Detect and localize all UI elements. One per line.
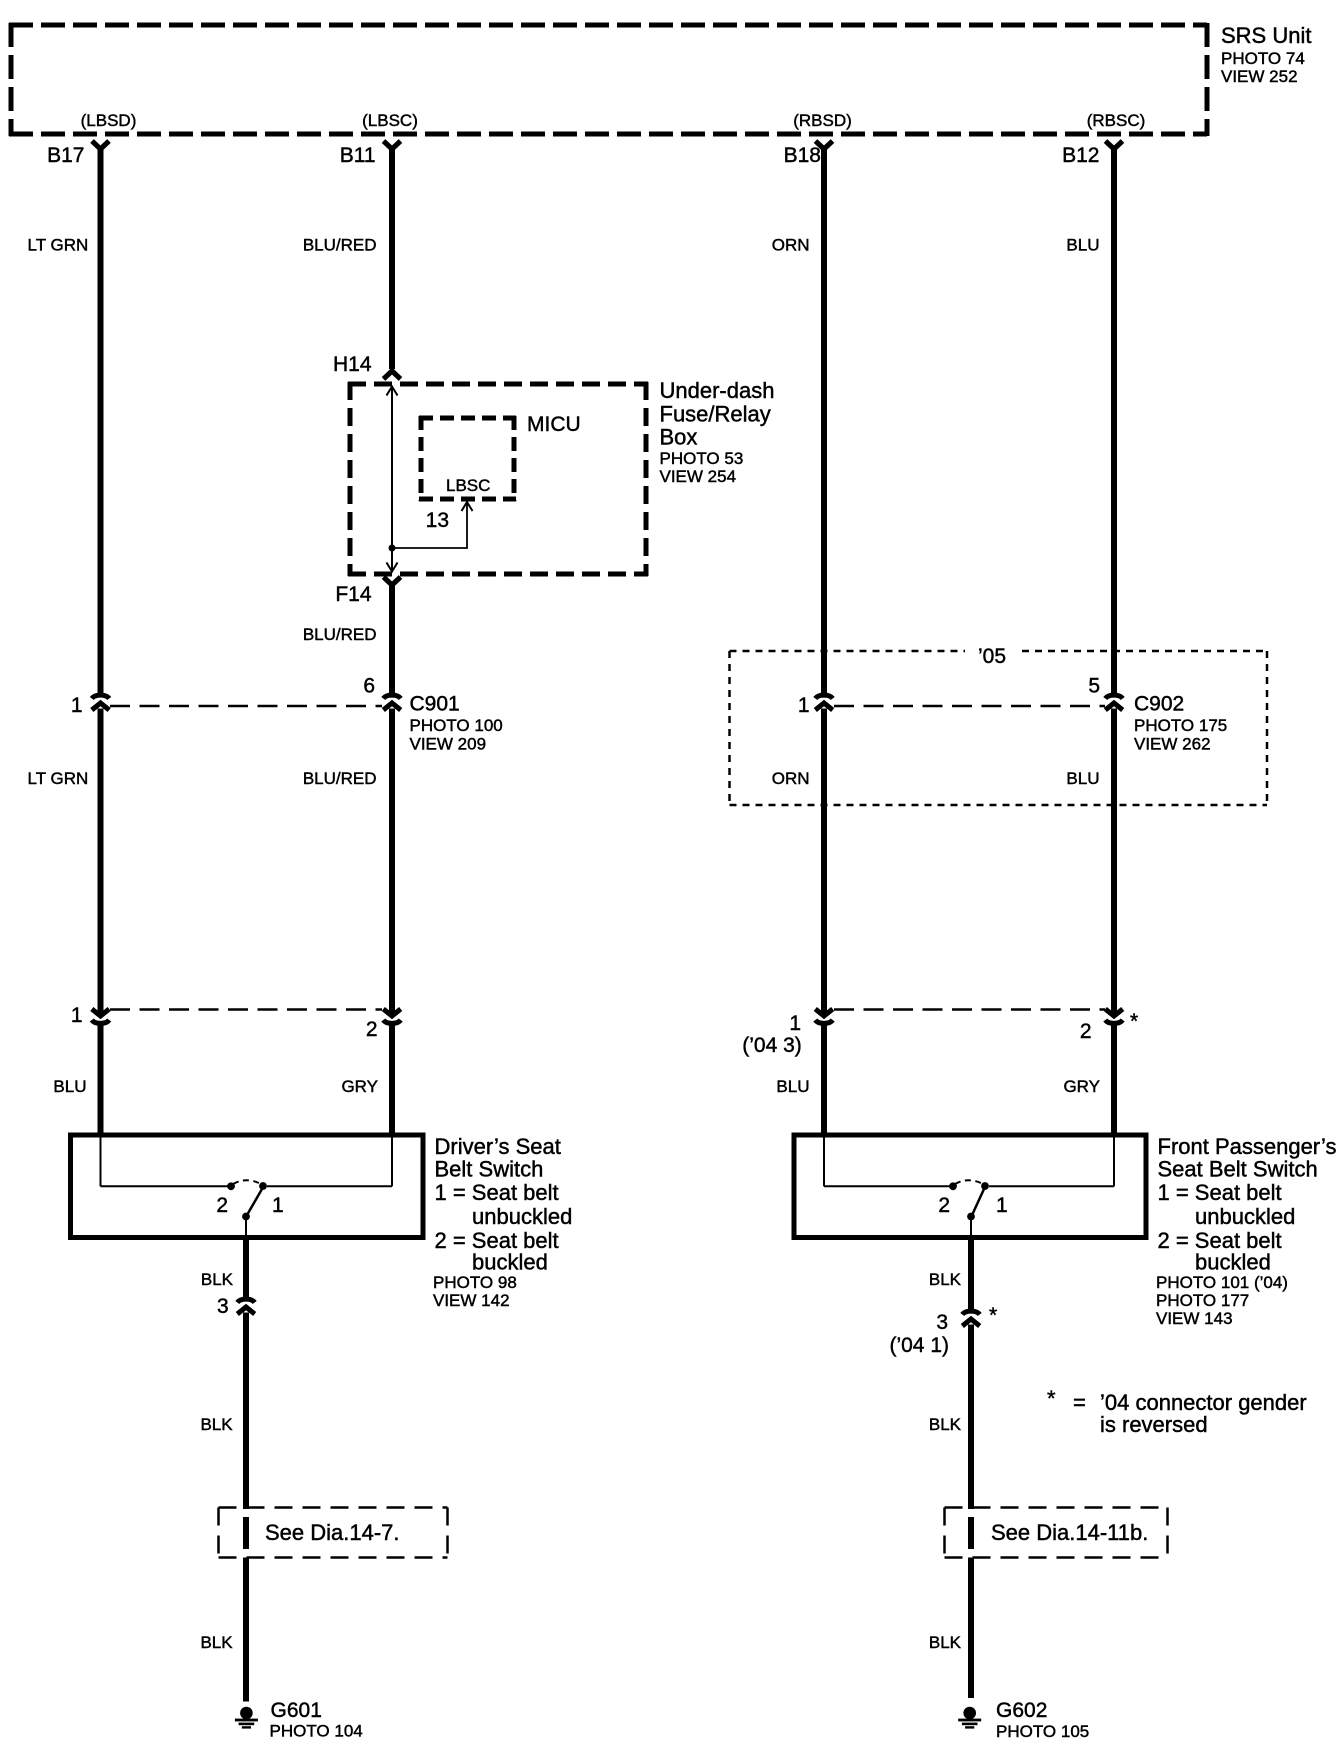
dashed link C901 — [110, 705, 382, 708]
contact dots right — [949, 1182, 957, 1190]
Front Passenger's Seat Belt Switch box — [794, 1135, 1146, 1238]
svg-text:3: 3 — [217, 1295, 229, 1318]
svg-text:1: 1 — [996, 1194, 1008, 1217]
connector cup B18 — [816, 141, 833, 149]
svg-text:BLU: BLU — [776, 1077, 809, 1096]
C901 label — [410, 693, 503, 754]
connector cup B11 — [384, 141, 401, 149]
svg-text:PHOTO 53: PHOTO 53 — [660, 449, 744, 468]
svg-text:VIEW 142: VIEW 142 — [433, 1291, 510, 1310]
svg-text:2: 2 — [216, 1194, 228, 1217]
connector 3 right — [962, 1311, 979, 1326]
svg-text:BLU: BLU — [53, 1077, 86, 1096]
svg-text:(RBSD): (RBSD) — [793, 111, 852, 130]
svg-text:BLK: BLK — [200, 1633, 233, 1652]
svg-text:5: 5 — [1088, 675, 1100, 698]
svg-text:H14: H14 — [333, 353, 372, 376]
asterisk note — [1047, 1386, 1307, 1437]
svg-text:BLK: BLK — [929, 1633, 962, 1652]
svg-text:GRY: GRY — [341, 1077, 378, 1096]
wire5 See box to ground — [243, 1558, 249, 1702]
svg-text:B18: B18 — [784, 144, 821, 167]
svg-text:Front Passenger’s: Front Passenger’s — [1158, 1134, 1337, 1159]
wire B12 (BLU) SRS to C902 — [1111, 148, 1117, 697]
connector symbol wire4 — [1105, 1009, 1122, 1023]
svg-text:VIEW 143: VIEW 143 — [1156, 1309, 1233, 1328]
arrow up into MICU — [462, 502, 473, 511]
svg-text:C901: C901 — [410, 693, 460, 716]
svg-text:3: 3 — [936, 1311, 948, 1334]
See Dia.14-11b. box — [945, 1508, 1168, 1558]
arrow down at F14 inside — [387, 563, 398, 572]
Driver's Seat Belt Switch box — [71, 1135, 424, 1238]
'05 dotted box — [730, 651, 1268, 805]
dashed link C902 — [834, 705, 1105, 708]
connector symbol wire1 — [92, 1009, 109, 1023]
G601 label — [270, 1699, 363, 1741]
svg-text:BLU/RED: BLU/RED — [303, 236, 377, 255]
svg-text:BLK: BLK — [201, 1270, 234, 1289]
svg-text:G602: G602 — [996, 1699, 1047, 1722]
svg-text:1: 1 — [272, 1194, 284, 1217]
svg-text:BLU/RED: BLU/RED — [303, 769, 377, 788]
svg-text:’05: ’05 — [978, 645, 1006, 668]
svg-text:Under-dash: Under-dash — [660, 378, 775, 403]
svg-text:BLK: BLK — [200, 1415, 233, 1434]
svg-text:Driver’s Seat: Driver’s Seat — [435, 1134, 561, 1159]
svg-text:GRY: GRY — [1063, 1077, 1100, 1096]
wire6 to See Dia box — [968, 1325, 974, 1510]
svg-text:2: 2 — [938, 1194, 950, 1217]
internal wire in fuse box — [391, 386, 393, 572]
svg-text:unbuckled: unbuckled — [472, 1204, 572, 1229]
switch internals right — [824, 1137, 1114, 1237]
branch wire to MICU pin 13 — [392, 503, 467, 548]
svg-text:*: * — [1130, 1010, 1138, 1033]
wire1 to switch box (BLU) — [98, 1024, 104, 1137]
connector cup F14 — [384, 577, 401, 585]
svg-text:2: 2 — [1080, 1020, 1092, 1043]
ground G601 — [235, 1707, 258, 1729]
svg-text:BLU: BLU — [1066, 236, 1099, 255]
connector 3 left — [237, 1299, 254, 1314]
svg-text:6: 6 — [363, 675, 375, 698]
switch internals left — [101, 1137, 393, 1237]
svg-text:*: * — [989, 1304, 997, 1327]
wire5 to See Dia box — [243, 1313, 249, 1510]
svg-text:VIEW 252: VIEW 252 — [1221, 67, 1298, 86]
Driver's Seat Belt Switch label — [433, 1134, 572, 1310]
svg-text:BLU: BLU — [1066, 769, 1099, 788]
connector symbol wire2 — [383, 1009, 400, 1023]
connector cup H14 — [384, 371, 401, 379]
dashed link right — [834, 1008, 1105, 1011]
svg-text:2: 2 — [366, 1018, 378, 1041]
svg-text:PHOTO 98: PHOTO 98 — [433, 1273, 517, 1292]
wire6 inside See box — [968, 1517, 974, 1549]
svg-text:PHOTO 105: PHOTO 105 — [996, 1722, 1089, 1741]
svg-text:(LBSC): (LBSC) — [362, 111, 418, 130]
svg-text:1 = Seat belt: 1 = Seat belt — [1158, 1180, 1282, 1205]
connector symbol wire4 — [1105, 695, 1122, 710]
svg-text:(’04 3): (’04 3) — [742, 1034, 802, 1057]
svg-text:PHOTO 74: PHOTO 74 — [1221, 49, 1305, 68]
wire B17 (LT GRN) SRS to C901 — [98, 148, 104, 697]
svg-text:ORN: ORN — [772, 769, 810, 788]
svg-text:B11: B11 — [340, 144, 376, 167]
wire B11 (BLU/RED) SRS to H14 — [389, 148, 395, 369]
svg-text:buckled: buckled — [472, 1250, 548, 1275]
svg-text:B17: B17 — [47, 144, 84, 167]
wire4 (BLU) — [1111, 709, 1117, 1015]
svg-text:1: 1 — [71, 694, 83, 717]
svg-text:BLU/RED: BLU/RED — [303, 625, 377, 644]
svg-text:PHOTO 175: PHOTO 175 — [1134, 716, 1227, 735]
svg-text:Belt Switch: Belt Switch — [435, 1157, 544, 1182]
dashed link left — [110, 1008, 382, 1011]
svg-text:BLK: BLK — [929, 1270, 962, 1289]
connector cup B17 — [92, 141, 109, 149]
svg-text:1: 1 — [798, 694, 810, 717]
svg-text:=: = — [1073, 1390, 1086, 1415]
svg-text:(’04 1): (’04 1) — [889, 1334, 949, 1357]
svg-text:F14: F14 — [335, 583, 372, 606]
Under-dash Fuse/Relay Box label — [660, 378, 775, 486]
svg-text:B12: B12 — [1062, 144, 1099, 167]
Under-dash Fuse/Relay Box — [348, 382, 648, 576]
connector symbol wire1 — [92, 695, 109, 710]
connector symbol wire2 — [383, 695, 400, 710]
svg-text:BLK: BLK — [929, 1415, 962, 1434]
wire3 to switch box (BLU) — [821, 1024, 827, 1137]
wire1 C901 to lower connector (LT GRN) — [98, 709, 104, 1015]
svg-text:(LBSD): (LBSD) — [81, 111, 137, 130]
svg-text:is reversed: is reversed — [1100, 1412, 1208, 1437]
contact dots left — [227, 1182, 235, 1190]
G602 label — [996, 1699, 1089, 1741]
connector symbol wire3 — [815, 695, 832, 710]
wire B18 (ORN) SRS to C902 — [821, 148, 827, 697]
svg-text:Seat Belt Switch: Seat Belt Switch — [1158, 1157, 1318, 1182]
SRS Unit box — [9, 23, 1207, 136]
Front Passenger's Seat Belt Switch label — [1156, 1134, 1336, 1328]
connector symbol wire3 — [815, 1009, 832, 1023]
SRS Unit label — [1221, 23, 1311, 86]
wire3 (ORN) — [821, 709, 827, 1015]
arrow up at H14 inside — [387, 387, 398, 396]
svg-text:See Dia.14-11b.: See Dia.14-11b. — [991, 1520, 1148, 1545]
svg-text:Box: Box — [660, 425, 698, 450]
C902 label — [1134, 693, 1227, 754]
svg-text:LT GRN: LT GRN — [28, 236, 89, 255]
svg-text:VIEW 209: VIEW 209 — [410, 735, 487, 754]
svg-text:G601: G601 — [271, 1699, 322, 1722]
ground G602 — [958, 1707, 981, 1729]
svg-text:LBSC: LBSC — [446, 476, 490, 495]
wire2 to switch box (GRY) — [389, 1024, 395, 1137]
svg-text:Fuse/Relay: Fuse/Relay — [660, 402, 771, 427]
svg-text:ORN: ORN — [772, 236, 810, 255]
svg-text:1: 1 — [789, 1012, 801, 1035]
svg-text:PHOTO 101 (’04): PHOTO 101 (’04) — [1156, 1273, 1288, 1292]
svg-text:See Dia.14-7.: See Dia.14-7. — [265, 1520, 400, 1545]
svg-text:VIEW 262: VIEW 262 — [1134, 735, 1211, 754]
svg-text:*: * — [1047, 1386, 1056, 1411]
svg-text:VIEW 254: VIEW 254 — [660, 467, 737, 486]
svg-text:unbuckled: unbuckled — [1195, 1204, 1295, 1229]
svg-text:1 = Seat belt: 1 = Seat belt — [435, 1180, 559, 1205]
junction dot — [389, 545, 396, 552]
wire5 BLK below left switch — [243, 1237, 249, 1301]
wire2 C901 to lower connector (BLU/RED) — [389, 709, 395, 1015]
wire5 inside See box — [243, 1517, 249, 1549]
svg-text:PHOTO 177: PHOTO 177 — [1156, 1291, 1249, 1310]
MICU box — [419, 416, 516, 501]
svg-text:LT GRN: LT GRN — [28, 769, 89, 788]
See Dia.14-7. box — [219, 1508, 448, 1558]
svg-text:buckled: buckled — [1195, 1250, 1271, 1275]
svg-text:MICU: MICU — [527, 413, 581, 436]
svg-text:PHOTO 104: PHOTO 104 — [270, 1722, 363, 1741]
connector cup B12 — [1106, 141, 1123, 149]
wire6 See box to ground — [968, 1558, 974, 1699]
svg-text:SRS Unit: SRS Unit — [1221, 23, 1311, 48]
svg-text:C902: C902 — [1134, 693, 1184, 716]
svg-text:13: 13 — [426, 509, 449, 532]
wire F14 to C901 (BLU/RED) — [389, 584, 395, 697]
wire4 to switch box (GRY) — [1111, 1024, 1117, 1137]
wire6 BLK below right switch — [968, 1237, 974, 1313]
svg-text:(RBSC): (RBSC) — [1087, 111, 1146, 130]
svg-text:1: 1 — [71, 1004, 83, 1027]
svg-text:PHOTO 100: PHOTO 100 — [410, 716, 503, 735]
